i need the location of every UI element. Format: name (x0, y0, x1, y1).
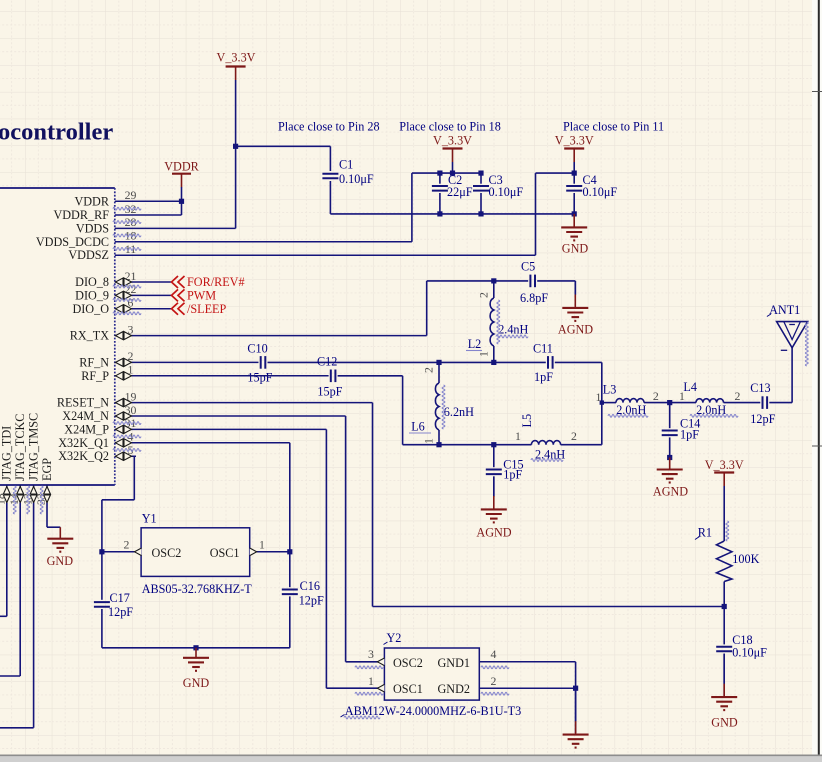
svg-text:Place close to Pin 18: Place close to Pin 18 (399, 120, 501, 134)
svg-text:0.10μF: 0.10μF (489, 185, 524, 199)
svg-text:L5: L5 (520, 414, 534, 428)
svg-text:2: 2 (571, 429, 577, 443)
svg-text:FOR/REV#: FOR/REV# (187, 275, 245, 289)
svg-text:C12: C12 (317, 354, 337, 368)
svg-text:VDDR_RF: VDDR_RF (53, 208, 109, 222)
svg-text:AGND: AGND (653, 484, 688, 498)
svg-text:Y2: Y2 (387, 631, 402, 645)
svg-text:1: 1 (477, 351, 491, 357)
svg-text:C5: C5 (521, 260, 535, 274)
svg-text:OSC2: OSC2 (393, 656, 423, 670)
svg-text:VDDS_DCDC: VDDS_DCDC (36, 235, 109, 249)
svg-text:2: 2 (477, 292, 491, 298)
svg-text:3: 3 (368, 647, 374, 661)
svg-text:1: 1 (515, 429, 521, 443)
svg-text:AGND: AGND (476, 526, 511, 540)
svg-text:GND: GND (711, 716, 738, 730)
svg-text:C10: C10 (247, 342, 267, 356)
svg-text:C11: C11 (533, 342, 553, 356)
svg-text:29: 29 (125, 188, 137, 202)
svg-text:12pF: 12pF (299, 594, 324, 608)
svg-text:V_3.3V: V_3.3V (433, 134, 472, 148)
svg-text:VDDR: VDDR (74, 194, 109, 208)
svg-text:22μF: 22μF (447, 185, 473, 199)
svg-text:2.4nH: 2.4nH (498, 323, 528, 337)
svg-text:12pF: 12pF (750, 412, 775, 426)
svg-text:2: 2 (422, 367, 436, 373)
svg-text:GND: GND (183, 676, 210, 690)
svg-text:0.10μF: 0.10μF (732, 646, 767, 660)
svg-text:V_3.3V: V_3.3V (555, 134, 594, 148)
svg-text:ABM12W-24.0000MHZ-6-B1U-T3: ABM12W-24.0000MHZ-6-B1U-T3 (345, 704, 521, 718)
svg-text:PWM: PWM (187, 288, 216, 302)
svg-text:V_3.3V: V_3.3V (705, 458, 744, 472)
svg-text:6.8pF: 6.8pF (520, 291, 548, 305)
svg-text:6.2nH: 6.2nH (444, 405, 474, 419)
svg-text:GND: GND (47, 554, 74, 568)
svg-text:0.10μF: 0.10μF (583, 185, 618, 199)
svg-text:X32K_Q1: X32K_Q1 (58, 436, 109, 450)
svg-text:1: 1 (596, 390, 602, 404)
svg-text:1: 1 (259, 538, 265, 552)
svg-text:12pF: 12pF (108, 605, 133, 619)
svg-text:DIO_O: DIO_O (72, 302, 109, 316)
svg-text:L3: L3 (603, 383, 617, 397)
svg-text:GND1: GND1 (438, 656, 471, 670)
svg-text:Place close to Pin 11: Place close to Pin 11 (563, 120, 664, 134)
svg-text:2: 2 (653, 389, 659, 403)
svg-text:DIO_9: DIO_9 (75, 288, 109, 302)
svg-text:L4: L4 (683, 380, 697, 394)
svg-text:Y1: Y1 (142, 512, 157, 526)
svg-text:R1: R1 (698, 526, 712, 540)
svg-text:ANT1: ANT1 (769, 303, 800, 317)
svg-text:15pF: 15pF (247, 371, 272, 385)
svg-text:JTAG_TDI: JTAG_TDI (0, 426, 14, 481)
svg-text:1: 1 (422, 438, 436, 444)
svg-text:VDDS: VDDS (76, 221, 109, 235)
svg-text:15pF: 15pF (317, 385, 342, 399)
svg-text:GND: GND (562, 242, 589, 256)
svg-text:L2: L2 (468, 337, 482, 351)
svg-text:2: 2 (735, 389, 741, 403)
svg-text:GND2: GND2 (438, 682, 471, 696)
svg-text:14: 14 (7, 493, 21, 505)
svg-text:2: 2 (491, 674, 497, 688)
svg-text:L6: L6 (411, 420, 425, 434)
svg-text:2: 2 (124, 538, 130, 552)
svg-text:100K: 100K (732, 552, 759, 566)
svg-text:X32K_Q2: X32K_Q2 (58, 449, 109, 463)
svg-text:1pF: 1pF (503, 468, 522, 482)
svg-text:33: 33 (34, 493, 48, 505)
svg-text:OSC1: OSC1 (210, 546, 240, 560)
svg-text:4: 4 (491, 647, 497, 661)
svg-text:EGP: EGP (40, 458, 54, 481)
svg-text:RF_N: RF_N (79, 355, 109, 369)
svg-text:OSC2: OSC2 (152, 546, 182, 560)
svg-text:VDDSZ: VDDSZ (68, 248, 109, 262)
svg-text:C16: C16 (300, 579, 320, 593)
svg-text:RESET_N: RESET_N (57, 396, 109, 410)
svg-text:1pF: 1pF (534, 370, 553, 384)
svg-text:Place close to Pin 28: Place close to Pin 28 (278, 120, 380, 134)
svg-text:13: 13 (20, 493, 34, 505)
svg-text:JTAG_TCKC: JTAG_TCKC (13, 414, 27, 481)
svg-text:ABS05-32.768KHZ-T: ABS05-32.768KHZ-T (142, 582, 253, 596)
svg-text:RX_TX: RX_TX (70, 329, 109, 343)
svg-text:OSC1: OSC1 (393, 682, 423, 696)
svg-text:0.10μF: 0.10μF (339, 172, 374, 186)
svg-text:/SLEEP: /SLEEP (187, 302, 226, 316)
svg-text:C1: C1 (339, 158, 353, 172)
svg-text:C13: C13 (750, 381, 770, 395)
svg-text:X24M_P: X24M_P (64, 422, 109, 436)
svg-text:X24M_N: X24M_N (62, 409, 109, 423)
svg-text:VDDR: VDDR (164, 159, 199, 173)
svg-text:V_3.3V: V_3.3V (217, 51, 256, 65)
svg-text:1pF: 1pF (680, 427, 699, 441)
svg-text:1: 1 (368, 674, 374, 688)
svg-text:RF_P: RF_P (81, 369, 109, 383)
svg-text:JTAG_TMSC: JTAG_TMSC (27, 413, 41, 481)
svg-text:C17: C17 (110, 591, 130, 605)
svg-text:AGND: AGND (558, 323, 593, 337)
svg-text:DIO_8: DIO_8 (75, 275, 109, 289)
svg-text:ocontroller: ocontroller (0, 119, 113, 146)
